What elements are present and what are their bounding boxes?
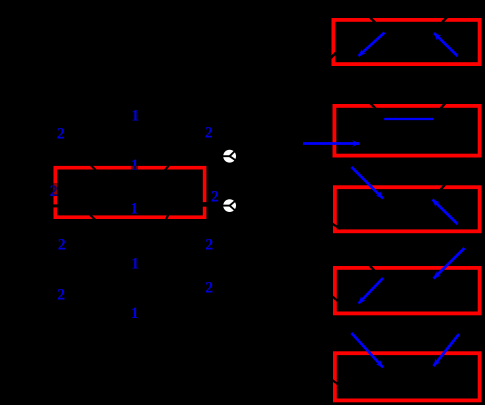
svg-text:2: 2: [58, 236, 66, 253]
svg-text:2: 2: [57, 125, 65, 142]
svg-text:1: 1: [131, 107, 139, 124]
svg-text:2: 2: [205, 125, 213, 142]
svg-text:1: 1: [131, 157, 139, 174]
svg-text:2: 2: [205, 236, 213, 253]
svg-text:1: 1: [131, 305, 139, 322]
svg-text:1: 1: [131, 256, 139, 273]
svg-text:2: 2: [57, 287, 65, 304]
svg-text:2: 2: [211, 188, 219, 205]
svg-text:2: 2: [205, 279, 213, 296]
svg-text:1: 1: [130, 200, 138, 217]
